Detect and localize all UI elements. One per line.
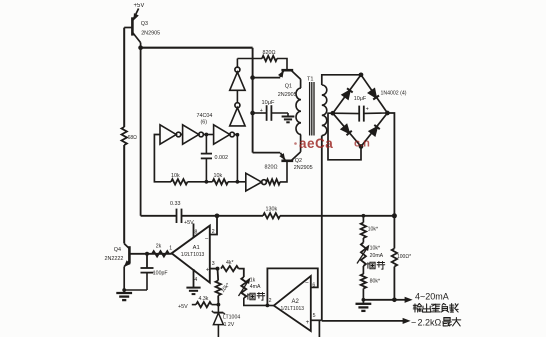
capacitor 10uF bypass <box>267 105 288 121</box>
wire 820Ω to Q2 base <box>280 162 287 182</box>
capacitor 0.002 timing <box>201 135 212 182</box>
resistor 10k* below node Q <box>216 269 221 305</box>
svg-text:2N2905: 2N2905 <box>294 165 313 171</box>
resistor 820Ω upper <box>262 56 277 61</box>
svg-text:LT1004: LT1004 <box>223 315 240 321</box>
svg-text:2k: 2k <box>156 244 162 250</box>
wire bridge left vertex loop to bottom vertex <box>328 113 361 160</box>
wire pin5 stub down <box>318 320 320 337</box>
svg-text:+: + <box>306 319 310 326</box>
node T: divider top junction <box>362 214 366 218</box>
svg-text:1: 1 <box>169 245 172 251</box>
inverter U1D driver for Q2 <box>246 173 262 191</box>
svg-text:2: 2 <box>212 229 215 235</box>
svg-text:+5V: +5V <box>184 220 194 226</box>
wire to inverter U1D input <box>228 181 246 183</box>
A1 pin 8 supply wire <box>193 224 195 238</box>
svg-text:10k: 10k <box>171 173 180 179</box>
svg-text:c.n: c.n <box>354 138 370 150</box>
svg-text:20mA: 20mA <box>370 253 384 259</box>
ground for divider <box>362 300 364 304</box>
svg-text:−: − <box>205 236 209 243</box>
ground for A1 <box>186 287 200 289</box>
output text to load CJK <box>413 304 421 313</box>
svg-text:4mA: 4mA <box>250 284 261 290</box>
inverter U1B <box>183 125 199 144</box>
diode bridge frame <box>333 75 388 147</box>
svg-text:8: 8 <box>195 230 198 236</box>
A1 pin 3 wire <box>210 268 218 270</box>
svg-text:3: 3 <box>212 261 215 267</box>
svg-text:5: 5 <box>313 313 316 319</box>
wire cap to node N <box>182 215 264 217</box>
node F: cap bottom junction <box>205 180 209 184</box>
node J: bridge right vertex <box>385 111 390 116</box>
node R: A2 output junction <box>266 304 270 308</box>
diode D3 1N4002 bottom-left <box>341 125 349 133</box>
svg-text:1k: 1k <box>250 278 256 284</box>
wire A1 output <box>152 253 172 255</box>
svg-text:2N2905: 2N2905 <box>141 30 160 36</box>
svg-text:68Ω: 68Ω <box>128 135 138 141</box>
node C: 10uF bypass junction <box>250 111 255 116</box>
svg-text:2N2222: 2N2222 <box>105 256 124 262</box>
wire feedback row with 0.33 cap and 130k <box>141 215 177 217</box>
svg-text:−: − <box>411 317 416 327</box>
potentiometer 1k 4mA adjust <box>241 277 246 298</box>
svg-text:0.002: 0.002 <box>215 155 229 161</box>
wire node N to A1 pin 2 <box>210 216 217 235</box>
op-amp A2 1/2 LT1013 <box>274 276 311 331</box>
svg-text:100Ω*: 100Ω* <box>397 254 411 260</box>
inverter U1F driver chain upper <box>230 72 245 90</box>
wire top supply bus <box>141 47 253 49</box>
left supply bus wire <box>123 28 125 127</box>
wire secondary top to bridge <box>322 75 361 85</box>
wire inv C output node <box>234 134 237 136</box>
wire 4k to pot top <box>239 269 244 277</box>
node A: Q3 collector junction <box>138 45 143 50</box>
svg-text:0.33: 0.33 <box>170 201 181 207</box>
node K: bridge bottom vertex <box>359 144 364 149</box>
node B: Q1 emitter supply junction <box>250 75 255 80</box>
wire secondary bottom long return <box>321 136 323 321</box>
wire bus to Q4 collector <box>123 145 125 244</box>
wire inv F out to 820Ω upper <box>236 59 238 68</box>
resistor 130k <box>263 213 280 218</box>
wire to Q1 emitter <box>253 77 281 79</box>
transistor Q3 2N2905 <box>124 9 140 48</box>
wire A2 feedback loop pin6 <box>267 268 317 305</box>
svg-text:+: + <box>366 107 369 113</box>
transistor Q4 2N2222 <box>124 244 130 290</box>
svg-text:+5V: +5V <box>134 3 145 9</box>
inverter U1C <box>214 125 230 144</box>
wire inv A out to inv B in <box>181 134 183 136</box>
svg-text:Q3: Q3 <box>141 21 148 27</box>
wire down to 100Ω resistor <box>393 216 395 249</box>
wire inv B out to inv C in <box>204 134 214 136</box>
diode D4 1N4002 bottom-right <box>369 127 377 135</box>
node D: timing cap top junction <box>205 133 209 137</box>
wire supply to Q2 emitter <box>253 152 281 154</box>
svg-text:10k*: 10k* <box>370 246 380 252</box>
wire node R to A2 output apex <box>267 304 273 306</box>
svg-text:4~20mA: 4~20mA <box>415 292 449 302</box>
svg-text:4: 4 <box>194 277 197 283</box>
resistor 10k* divider top <box>361 216 366 243</box>
svg-text:2N2905: 2N2905 <box>278 92 297 98</box>
svg-text:Q4: Q4 <box>114 247 121 253</box>
node O: Q4 base / 100pF junction <box>145 252 149 256</box>
svg-text:10μF: 10μF <box>262 100 275 106</box>
node L: feedback row junction <box>392 213 397 218</box>
potentiometer 10k* 20mA adjust <box>361 243 366 267</box>
transformer T1 <box>296 82 327 136</box>
svg-text:A2: A2 <box>292 299 300 305</box>
wire output row <box>363 299 394 301</box>
pot wiper arrow 4mA <box>239 279 250 296</box>
node Q: A1 noninverting junction <box>216 267 220 271</box>
svg-text:10k: 10k <box>214 173 223 179</box>
wire collector feedback drop <box>140 48 142 216</box>
zener LT1004 1.2V <box>212 305 225 337</box>
svg-text:1/2LT1013: 1/2LT1013 <box>181 252 205 258</box>
svg-text:+: + <box>260 108 263 114</box>
node S: zener junction <box>217 303 221 307</box>
adjust label CJK 20mA <box>368 262 375 268</box>
svg-text:820Ω: 820Ω <box>263 50 276 56</box>
resistor 100Ω* <box>392 249 397 267</box>
ground for Q4 <box>123 290 125 293</box>
wire +5V vertical rail to Q1/Q2 <box>252 48 254 153</box>
resistor 80k* <box>361 266 366 300</box>
capacitor 100pF <box>124 254 153 290</box>
adjust label CJK 4mA <box>248 293 255 299</box>
svg-text:+: + <box>206 266 210 273</box>
arrow minus output <box>403 318 410 323</box>
resistor 4k* <box>221 266 239 271</box>
svg-text:+5V: +5V <box>178 304 188 310</box>
svg-text:1N4002 (4): 1N4002 (4) <box>381 91 407 97</box>
svg-text:2.2kΩ: 2.2kΩ <box>418 317 442 327</box>
pot wiper arrow 20mA <box>357 246 369 264</box>
resistor 820Ω lower <box>266 179 280 184</box>
node G: inv C to row junction <box>236 180 240 184</box>
node I: bridge left vertex <box>330 111 335 116</box>
svg-text:T1: T1 <box>307 76 314 82</box>
ground for bypass capacitor <box>282 116 295 118</box>
svg-text:4.3k: 4.3k <box>199 296 209 302</box>
wire A2 pin 5 to sense rail <box>311 319 322 321</box>
svg-text:100pF: 100pF <box>153 270 168 276</box>
resistor 10k oscillator left <box>171 179 188 184</box>
svg-text:74C04: 74C04 <box>197 113 213 119</box>
svg-text:(6): (6) <box>201 119 208 125</box>
svg-text:−: − <box>305 280 309 287</box>
wire +5V to 4.3k <box>192 304 196 306</box>
wire between 10k resistors <box>188 181 213 183</box>
resistor 10k oscillator right <box>213 179 229 184</box>
svg-text:Q2: Q2 <box>295 158 302 164</box>
inverter U1E driver chain lower <box>230 108 245 126</box>
wire 4.3k to zener node <box>212 304 219 306</box>
resistor 68Ω <box>122 127 127 145</box>
wire 820Ω to Q1 base <box>277 59 287 71</box>
svg-text:aeCa: aeCa <box>299 136 333 151</box>
transistor Q2 2N2905 <box>280 135 301 161</box>
A1 pin 4 wire to ground <box>193 269 195 287</box>
wire 2k to Q4 base <box>130 253 153 255</box>
red watermark speck <box>294 142 297 145</box>
capacitor 0.33 <box>177 209 182 223</box>
wire to bypass capacitor <box>253 112 267 114</box>
op-amp A1 1/2 LT1013 <box>172 226 210 283</box>
svg-text:1 2V: 1 2V <box>224 322 235 328</box>
wire sense rail to load arrow <box>322 320 406 322</box>
svg-text:A1: A1 <box>193 245 200 251</box>
svg-text:1/2LT1013: 1/2LT1013 <box>281 306 305 312</box>
svg-text:2: 2 <box>269 298 272 304</box>
svg-text:10μF: 10μF <box>354 96 367 102</box>
resistor 2k <box>152 251 169 256</box>
diode D2 1N4002 top-right <box>369 89 377 98</box>
svg-text:130k: 130k <box>266 206 278 212</box>
inverter U1A 74C04 <box>160 125 176 144</box>
svg-text:4k*: 4k* <box>226 260 234 266</box>
node P: emitter ground junction <box>122 288 126 292</box>
svg-text:80k*: 80k* <box>370 279 380 285</box>
wire 130k to node L <box>280 215 394 217</box>
node U: divider ground junction <box>362 298 366 302</box>
transistor Q1 2N2905 <box>279 70 301 88</box>
wire 100Ω to output node <box>393 267 395 300</box>
wire between vertical inverters <box>236 90 238 102</box>
wire output arrow plus <box>394 299 407 301</box>
node H: bridge top vertex <box>359 72 364 77</box>
wire node E down to node G <box>236 135 238 182</box>
node E: oscillator output junction <box>236 133 240 137</box>
diode D1 1N4002 top-left <box>342 90 350 99</box>
capacitor 10uF filter in bridge <box>333 106 388 122</box>
wire oscillator feedback left leg <box>154 135 171 182</box>
output text max CJK <box>443 317 452 325</box>
node N: A1 inverting input junction <box>215 213 220 218</box>
node M: output junction <box>392 298 397 303</box>
arrow plus output <box>405 297 412 302</box>
wire pot bottom to A2 output node <box>244 298 268 305</box>
svg-text:Q1: Q1 <box>285 83 292 89</box>
svg-text:10k*: 10k* <box>368 226 378 232</box>
resistor 4.3k <box>196 302 212 307</box>
svg-text:820Ω: 820Ω <box>265 165 278 171</box>
wire bridge right vertex output leg <box>387 113 394 216</box>
